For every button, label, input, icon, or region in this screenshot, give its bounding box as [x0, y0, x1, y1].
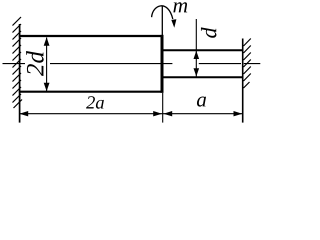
step axis extension above (moment application line) — [161, 6, 163, 36]
d dimension line — [195, 19, 197, 77]
small shaft bottom edge — [162, 76, 243, 78]
2d upper arrowhead — [44, 37, 50, 46]
big shaft bottom edge — [19, 91, 164, 93]
right wall hatching — [244, 39, 251, 89]
d dimension upper arrowhead — [194, 51, 200, 59]
step shoulder line — [161, 35, 164, 93]
bottom dimension line — [19, 113, 242, 115]
left wall hatching — [13, 17, 23, 108]
moment arc — [152, 6, 173, 19]
left wall line — [19, 24, 21, 123]
label d (rotated) — [201, 27, 217, 37]
label a — [197, 97, 206, 107]
2d dimension line — [46, 38, 48, 92]
label 2a — [86, 96, 104, 108]
d dimension lower arrowhead — [194, 68, 200, 76]
label 2d (rotated) — [26, 51, 44, 76]
a right arrowhead — [234, 111, 243, 116]
small shaft (diameter d) top edge — [162, 49, 243, 51]
centerline (axis) — [3, 63, 261, 65]
a left arrowhead — [163, 111, 172, 116]
moment arrowhead — [171, 19, 176, 28]
2d lower arrowhead — [44, 83, 50, 92]
right wall line — [242, 39, 244, 123]
label m — [173, 2, 187, 12]
big shaft (diameter 2d) top edge — [19, 35, 164, 37]
2a right arrowhead — [153, 111, 162, 116]
2a left arrowhead — [19, 111, 28, 116]
step extension line — [162, 93, 164, 123]
